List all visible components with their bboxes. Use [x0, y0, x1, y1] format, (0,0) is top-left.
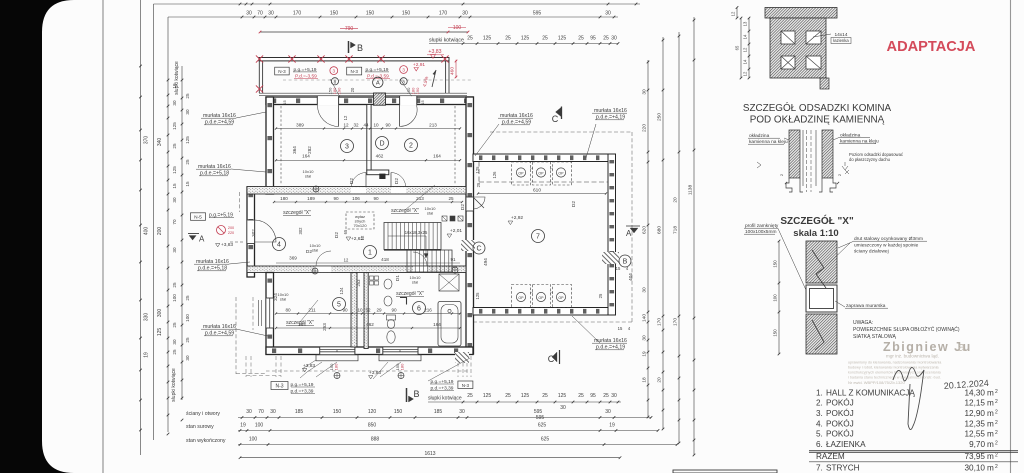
svg-text:125: 125 — [521, 36, 530, 42]
svg-text:25: 25 — [467, 393, 473, 399]
svg-text:OP: OP — [518, 296, 524, 300]
bidet room6 — [387, 331, 395, 343]
right chain lines — [647, 60, 649, 417]
washbasin 2 — [384, 296, 392, 306]
svg-text:2: 2 — [995, 464, 998, 470]
svg-text:125: 125 — [475, 292, 480, 300]
chimney flue bottom-right — [806, 56, 821, 69]
svg-text:125: 125 — [157, 328, 163, 337]
svg-text:9,70: 9,70 — [969, 440, 985, 449]
level boxes N-3 row — [275, 67, 290, 75]
circle B right — [619, 255, 631, 267]
svg-text:80: 80 — [285, 308, 291, 313]
svg-text:7.: 7. — [816, 464, 823, 473]
svg-text:180: 180 — [280, 196, 288, 201]
svg-text:2: 2 — [409, 143, 413, 150]
svg-text:850: 850 — [368, 423, 377, 429]
offset detail right bar — [822, 130, 833, 178]
svg-text:stal: stal — [305, 173, 311, 178]
stairs lower flight — [407, 250, 452, 272]
dashed eaves extension — [490, 131, 632, 133]
svg-text:90: 90 — [342, 308, 348, 313]
svg-text:164: 164 — [433, 154, 441, 159]
svg-text:18: 18 — [642, 377, 648, 383]
svg-text:125: 125 — [558, 36, 567, 42]
door D1 gap — [413, 266, 427, 272]
svg-text:m: m — [987, 452, 994, 461]
svg-text:30: 30 — [605, 409, 611, 415]
svg-text:1138: 1138 — [688, 185, 694, 196]
detail X left dim chain — [778, 241, 780, 354]
svg-text:30: 30 — [172, 247, 177, 253]
svg-text:14: 14 — [743, 34, 748, 39]
chimney stub bottom — [820, 78, 829, 89]
svg-text:25: 25 — [578, 36, 584, 42]
svg-text:100: 100 — [249, 437, 258, 443]
door gap hall to room5 — [316, 266, 331, 272]
section arrow A left — [188, 233, 199, 235]
svg-text:m: m — [987, 419, 994, 428]
svg-text:400: 400 — [144, 227, 150, 236]
top chain line 2 with numbers — [168, 16, 618, 18]
svg-text:N-3: N-3 — [350, 69, 358, 74]
svg-text:6.: 6. — [816, 440, 823, 449]
dashed foundation below bottom wall right — [457, 356, 459, 377]
svg-text:200: 200 — [228, 226, 234, 230]
svg-text:m: m — [987, 399, 994, 408]
svg-text:19: 19 — [240, 423, 246, 429]
svg-text:2.: 2. — [816, 399, 823, 408]
svg-text:1613: 1613 — [424, 451, 435, 457]
svg-text:2: 2 — [995, 420, 998, 426]
svg-text:718: 718 — [673, 226, 679, 234]
toilet room6 — [387, 315, 396, 320]
svg-text:340: 340 — [157, 138, 163, 147]
L-wall bottom of D corridor — [367, 170, 389, 175]
svg-text:125: 125 — [172, 122, 177, 130]
svg-text:100: 100 — [773, 294, 778, 302]
svg-text:m: m — [987, 430, 994, 439]
svg-text:D1: D1 — [395, 275, 401, 281]
wall top main house — [266, 97, 473, 105]
svg-text:330: 330 — [144, 313, 150, 322]
svg-text:90: 90 — [385, 123, 391, 128]
svg-text:umieszczony w każdej spoinie: umieszczony w każdej spoinie — [854, 243, 919, 249]
svg-text:19: 19 — [144, 352, 150, 358]
svg-text:D2: D2 — [306, 249, 312, 255]
svg-text:125: 125 — [172, 166, 177, 174]
red circled mark left — [217, 226, 226, 235]
svg-text:125: 125 — [185, 136, 190, 144]
svg-text:D2: D2 — [460, 204, 466, 210]
svg-text:OP: OP — [558, 296, 564, 300]
svg-text:180: 180 — [400, 363, 405, 370]
svg-text:185: 185 — [295, 409, 304, 415]
wall bottom main house — [266, 347, 473, 355]
svg-text:ściany działowej: ściany działowej — [854, 249, 889, 255]
svg-text:stal: stal — [412, 279, 418, 284]
chimney hatch block in top wall — [374, 93, 386, 105]
svg-text:N-3: N-3 — [462, 383, 470, 388]
svg-text:25: 25 — [505, 36, 511, 42]
svg-text:+3,83: +3,83 — [428, 49, 441, 55]
offset detail centre lines — [802, 130, 804, 186]
svg-text:30: 30 — [270, 409, 276, 415]
svg-text:216: 216 — [424, 308, 432, 313]
svg-text:30: 30 — [172, 197, 177, 203]
svg-text:90: 90 — [373, 196, 379, 201]
svg-text:m: m — [987, 440, 994, 449]
svg-text:ŁAZIENKA: ŁAZIENKA — [826, 440, 866, 449]
svg-text:+3,83: +3,83 — [303, 363, 315, 369]
black circled 8 markers — [331, 78, 338, 85]
chimney detail body — [770, 18, 826, 78]
room circle 5 — [333, 298, 346, 311]
svg-text:OP: OP — [518, 171, 524, 175]
svg-text:30: 30 — [642, 335, 648, 341]
partition wc — [364, 273, 368, 349]
offset small arrows — [757, 162, 761, 168]
svg-text:15: 15 — [616, 266, 621, 271]
bathtub — [438, 302, 461, 347]
svg-text:12: 12 — [743, 47, 748, 52]
legend razem separator — [809, 450, 1018, 452]
svg-text:370: 370 — [144, 136, 150, 145]
svg-text:25: 25 — [185, 295, 190, 301]
svg-text:95: 95 — [590, 36, 596, 42]
svg-text:213: 213 — [429, 123, 437, 128]
svg-text:POD OKŁADZINĘ KAMIENNĄ: POD OKŁADZINĘ KAMIENNĄ — [750, 115, 885, 126]
svg-text:2: 2 — [995, 399, 998, 405]
svg-text:70: 70 — [258, 409, 264, 415]
svg-text:170: 170 — [439, 11, 448, 17]
svg-text:25: 25 — [467, 36, 473, 42]
svg-text:m: m — [987, 464, 994, 473]
svg-text:stan surowy: stan surowy — [186, 424, 214, 430]
offset detail steps left — [786, 178, 792, 192]
svg-text:25: 25 — [476, 182, 481, 187]
svg-text:91: 91 — [450, 257, 456, 262]
washbasin 1 — [384, 279, 392, 289]
svg-text:30: 30 — [185, 109, 190, 115]
OP circles bottom — [516, 292, 525, 301]
svg-text:200: 200 — [157, 227, 163, 236]
extension inner dashed line top — [479, 181, 608, 183]
svg-text:460: 460 — [450, 67, 456, 75]
svg-text:słupki kotwiące: słupki kotwiące — [171, 368, 177, 402]
svg-text:253: 253 — [322, 323, 327, 331]
detail X profile box — [806, 285, 837, 312]
svg-text:15: 15 — [618, 326, 623, 331]
svg-text:D2: D2 — [334, 232, 340, 238]
svg-text:A: A — [626, 229, 632, 238]
svg-text:25: 25 — [172, 322, 177, 328]
svg-text:30: 30 — [185, 355, 190, 361]
svg-text:30: 30 — [642, 89, 648, 95]
section B hatch patch extension right wall — [602, 252, 619, 264]
partition room3-D — [367, 105, 371, 172]
svg-text:170: 170 — [673, 318, 679, 326]
chimney flue top-right — [806, 31, 821, 44]
room circle 7 — [532, 230, 545, 243]
svg-text:m: m — [987, 388, 994, 397]
svg-text:302: 302 — [251, 229, 256, 237]
svg-text:190: 190 — [415, 87, 420, 94]
svg-text:12: 12 — [743, 71, 748, 76]
svg-text:3: 3 — [345, 144, 349, 151]
svg-text:164: 164 — [433, 322, 441, 327]
svg-text:29: 29 — [376, 308, 382, 313]
svg-text:494: 494 — [483, 258, 488, 266]
svg-text:D2: D2 — [349, 178, 355, 184]
wall middle horizontal — [247, 187, 466, 195]
terrace slab edge lines — [259, 92, 467, 94]
svg-text:N-3: N-3 — [278, 69, 286, 74]
chimney 14x14 label — [813, 34, 831, 37]
svg-text:4.: 4. — [816, 419, 823, 428]
OP dashed boxes bottom — [512, 285, 531, 308]
circle C — [473, 242, 485, 254]
svg-text:610: 610 — [533, 188, 541, 194]
wall room4 bottom and lower-mid wall — [247, 266, 466, 273]
svg-text:konstrukcyjnych elementów budo: konstrukcyjnych elementów budowlanych or… — [848, 371, 942, 375]
svg-text:1: 1 — [368, 250, 372, 257]
svg-text:C: C — [552, 114, 559, 124]
svg-text:25: 25 — [448, 196, 454, 201]
svg-text:126: 126 — [492, 171, 497, 179]
svg-text:25: 25 — [542, 393, 548, 399]
svg-text:POKÓJ: POKÓJ — [826, 418, 854, 428]
svg-text:282: 282 — [307, 146, 312, 154]
svg-text:52: 52 — [365, 308, 371, 313]
svg-text:D2: D2 — [394, 178, 400, 184]
svg-text:OP: OP — [558, 171, 564, 175]
svg-text:150: 150 — [330, 11, 339, 17]
survey circle marks — [334, 373, 340, 379]
extension top wall — [473, 154, 608, 162]
svg-text:15: 15 — [185, 181, 190, 187]
offset detail left bar — [789, 130, 800, 178]
svg-text:10: 10 — [373, 123, 379, 128]
svg-text:+3,83: +3,83 — [221, 242, 233, 248]
svg-text:stan wykończony: stan wykończony — [186, 438, 226, 444]
svg-text:szczegół "X": szczegół "X" — [391, 208, 419, 214]
svg-text:150: 150 — [333, 409, 342, 415]
svg-text:14,30: 14,30 — [965, 388, 986, 397]
door top wall room2 — [400, 96, 417, 105]
door middle wall to room3 — [351, 187, 366, 193]
svg-text:125: 125 — [483, 393, 492, 399]
dashed foundation below bottom wall left — [245, 356, 247, 377]
red circled 3 markers — [330, 67, 338, 75]
svg-text:30: 30 — [172, 100, 177, 106]
svg-text:B: B — [623, 259, 628, 266]
bottom row total 1613 — [240, 457, 620, 459]
chimney black block room D — [379, 174, 385, 179]
svg-text:12: 12 — [344, 258, 349, 263]
detail X column hatched bottom — [806, 314, 837, 354]
terrace side rail left — [258, 58, 260, 94]
svg-text:12,55: 12,55 — [965, 430, 986, 439]
corner bracket symbol — [400, 298, 407, 305]
svg-text:120: 120 — [368, 409, 377, 415]
svg-text:620: 620 — [642, 226, 648, 234]
svg-text:30: 30 — [611, 36, 617, 42]
svg-text:680: 680 — [657, 226, 663, 234]
svg-text:125: 125 — [521, 393, 530, 399]
stairs walk line — [388, 235, 426, 237]
svg-text:a: a — [958, 340, 965, 354]
svg-text:+2,91: +2,91 — [413, 62, 425, 68]
svg-text:404: 404 — [628, 273, 633, 281]
svg-text:B: B — [357, 43, 363, 53]
detail X zigzag wire bottom — [812, 320, 824, 350]
svg-text:1.: 1. — [816, 388, 823, 397]
blind dashes room3 — [280, 106, 282, 185]
svg-text:25: 25 — [603, 393, 609, 399]
svg-text:25: 25 — [505, 393, 511, 399]
svg-text:70x120: 70x120 — [353, 223, 367, 228]
svg-text:25: 25 — [172, 282, 177, 288]
svg-text:20: 20 — [657, 377, 663, 383]
left chain ticks and numbers — [139, 65, 142, 68]
svg-text:C: C — [476, 246, 481, 253]
svg-text:30: 30 — [246, 11, 252, 17]
svg-text:słupki kotwiące: słupki kotwiące — [174, 61, 180, 95]
svg-text:2: 2 — [995, 452, 998, 458]
svg-text:12: 12 — [731, 11, 736, 16]
wylaz strych dashed box — [346, 212, 374, 229]
svg-text:Nr ewid. WBPP/108/75/Zb.1320: Nr ewid. WBPP/108/75/Zb.1320 — [848, 380, 905, 385]
svg-text:30: 30 — [246, 409, 252, 415]
svg-text:STRYCH: STRYCH — [826, 464, 860, 473]
svg-text:+2,92: +2,92 — [511, 215, 523, 221]
svg-text:73,95: 73,95 — [965, 452, 986, 461]
svg-text:słupki kotwiące: słupki kotwiące — [429, 38, 464, 44]
door room4 left wall — [247, 220, 254, 244]
stairs upper flight — [384, 223, 441, 250]
svg-text:+2,01: +2,01 — [450, 228, 462, 234]
extension bottom wall — [473, 308, 608, 316]
wc small squares — [370, 276, 374, 280]
svg-text:20: 20 — [350, 87, 355, 92]
checkbox symbols hall — [442, 216, 447, 221]
svg-text:250: 250 — [657, 113, 663, 121]
svg-text:595: 595 — [533, 11, 542, 17]
svg-text:OP: OP — [538, 296, 544, 300]
door top wall room3 — [317, 96, 338, 105]
window bottom wall room6 — [383, 347, 418, 354]
paper fold line right — [1010, 0, 1012, 473]
window left lower wall — [266, 298, 273, 328]
svg-text:10: 10 — [357, 308, 363, 313]
chimney left dim chain — [736, 8, 738, 19]
svg-text:625: 625 — [541, 437, 550, 443]
svg-text:100: 100 — [255, 423, 264, 429]
svg-text:16x18,3x25: 16x18,3x25 — [405, 230, 428, 235]
svg-text:+2,62: +2,62 — [351, 236, 363, 242]
svg-text:szczegół "X": szczegół "X" — [396, 291, 424, 297]
detail X column hatched top — [806, 241, 837, 283]
svg-text:25: 25 — [172, 349, 177, 355]
svg-text:302: 302 — [298, 227, 303, 235]
svg-text:30: 30 — [459, 409, 465, 415]
svg-text:30: 30 — [642, 287, 648, 293]
svg-text:7: 7 — [536, 234, 540, 241]
section C hatch patch main right wall — [461, 240, 475, 251]
svg-text:ADAPTACJA: ADAPTACJA — [887, 39, 976, 55]
svg-text:5.: 5. — [816, 430, 823, 439]
svg-text:100: 100 — [185, 314, 190, 322]
svg-text:462: 462 — [376, 154, 384, 159]
svg-text:418: 418 — [381, 257, 389, 262]
svg-text:90: 90 — [391, 308, 397, 313]
svg-text:12,35: 12,35 — [965, 419, 986, 428]
svg-text:uprawniony do kierowania, nadz: uprawniony do kierowania, nadzorowania i… — [848, 361, 942, 365]
terrace side rail right — [445, 61, 447, 93]
svg-text:5: 5 — [337, 302, 341, 309]
svg-text:30: 30 — [611, 393, 617, 399]
svg-text:389: 389 — [296, 123, 304, 128]
detail X zigzag wire top — [812, 250, 826, 288]
shower tray — [439, 274, 459, 291]
svg-text:20: 20 — [673, 197, 679, 203]
chimney flue top-left — [781, 31, 795, 44]
svg-text:+3,83: +3,83 — [369, 370, 381, 376]
svg-text:OP: OP — [538, 171, 544, 175]
svg-text:ściany i otwory: ściany i otwory — [186, 411, 220, 417]
N-5 level box left — [191, 213, 206, 221]
svg-text:300: 300 — [157, 309, 163, 318]
wall room4 left — [247, 187, 255, 277]
svg-text:4: 4 — [277, 242, 281, 249]
svg-text:30: 30 — [172, 339, 177, 345]
svg-text:150: 150 — [394, 409, 403, 415]
svg-text:15: 15 — [420, 100, 425, 105]
svg-text:3.: 3. — [816, 409, 823, 418]
svg-text:30,10: 30,10 — [965, 464, 986, 473]
svg-text:skala 1:10: skala 1:10 — [793, 228, 838, 239]
svg-text:19: 19 — [609, 423, 615, 429]
wall left lower — [266, 273, 274, 355]
circle A terrace — [373, 77, 383, 87]
svg-text:SZCZEGÓŁ ODSADZKI KOMINA: SZCZEGÓŁ ODSADZKI KOMINA — [743, 103, 892, 114]
svg-text:369: 369 — [289, 256, 297, 261]
section mark B top — [348, 41, 350, 53]
svg-text:220: 220 — [642, 124, 648, 132]
OP circles top — [516, 168, 525, 177]
terrace red cross marks — [256, 55, 263, 62]
svg-text:70: 70 — [257, 11, 263, 17]
svg-text:124: 124 — [339, 287, 344, 295]
svg-text:30: 30 — [268, 11, 274, 17]
svg-text:888: 888 — [371, 437, 380, 443]
OP dashed boxes top — [512, 162, 531, 185]
svg-text:150: 150 — [402, 11, 411, 17]
svg-text:15: 15 — [172, 183, 177, 189]
door middle wall to room2 — [391, 187, 406, 193]
svg-text:HALL Z KOMUNIKACJĄ: HALL Z KOMUNIKACJĄ — [826, 388, 915, 397]
svg-text:UWAGA:: UWAGA: — [853, 320, 873, 326]
terrace band double line — [259, 58, 449, 61]
svg-text:2: 2 — [995, 410, 998, 416]
svg-text:B: B — [413, 389, 419, 399]
extension right wall — [608, 154, 616, 315]
svg-text:189: 189 — [307, 196, 315, 201]
svg-text:A: A — [199, 235, 205, 244]
svg-text:stal: stal — [280, 296, 286, 301]
svg-text:625: 625 — [538, 423, 547, 429]
